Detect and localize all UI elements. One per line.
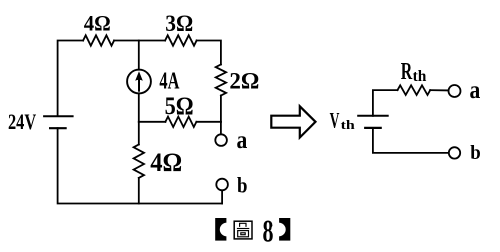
current source arrow <box>138 78 140 91</box>
resistor R 5ohm <box>165 117 196 127</box>
svg-text:th: th <box>341 117 356 132</box>
svg-text:R: R <box>401 58 413 85</box>
svg-text:24V: 24V <box>8 109 36 134</box>
svg-text:4Ω: 4Ω <box>150 147 182 177</box>
wire current source bottom to 5ohm junction <box>138 93 140 122</box>
resistor R 3ohm top <box>165 35 197 45</box>
svg-text:3Ω: 3Ω <box>165 11 193 36</box>
terminal b left circuit <box>216 179 228 191</box>
resistor R 4ohm vertical <box>134 145 144 178</box>
resistor R 4ohm top <box>83 35 114 45</box>
wire top-left horizontal segment <box>58 41 84 116</box>
battery Vth short plate <box>365 127 381 129</box>
terminal a left circuit <box>215 134 227 146</box>
svg-text:b: b <box>237 172 248 197</box>
svg-text:a: a <box>470 77 481 104</box>
svg-text:th: th <box>413 68 427 85</box>
implication arrow <box>271 106 315 137</box>
wire thevenin top-left vertical <box>373 90 398 116</box>
battery V1 24V long plate <box>44 115 73 117</box>
terminal b right circuit <box>449 147 460 158</box>
wire top-right corner down to 2ohm <box>197 41 221 65</box>
current source I1 circle <box>127 70 151 94</box>
svg-text:2Ω: 2Ω <box>229 69 259 95</box>
terminal a right circuit <box>449 85 461 97</box>
wire 4ohm bottom to bottom rail <box>138 178 140 204</box>
battery Vth long plate <box>358 115 388 117</box>
svg-text:5Ω: 5Ω <box>165 93 194 120</box>
battery V1 24V short plate <box>50 127 66 129</box>
wire 5ohm left segment <box>139 121 166 123</box>
caption bracket left <box>215 218 234 241</box>
wire lead terminal b <box>221 190 223 203</box>
svg-text:V: V <box>330 107 340 132</box>
wire top middle segment <box>114 40 165 42</box>
wire thevenin bottom <box>373 128 449 153</box>
wire 5ohm right segment <box>196 121 221 123</box>
resistor Rth <box>398 85 431 95</box>
svg-text:b: b <box>470 142 481 164</box>
wire bottom rail <box>58 128 223 203</box>
resistor R 2ohm vertical <box>216 65 226 96</box>
wire 2ohm bottom to node a junction <box>220 96 222 122</box>
caption bracket right <box>271 218 290 241</box>
svg-text:a: a <box>237 127 248 154</box>
wire Rth to terminal a <box>430 89 448 91</box>
wire lead to terminal a <box>220 122 222 135</box>
svg-text:4Ω: 4Ω <box>84 11 111 36</box>
svg-text:4A: 4A <box>159 69 179 95</box>
wire middle vertical top (to current source) <box>138 41 140 70</box>
caption figure glyph (CJK tu) <box>234 221 252 239</box>
wire middle vertical to 4ohm <box>138 122 140 145</box>
